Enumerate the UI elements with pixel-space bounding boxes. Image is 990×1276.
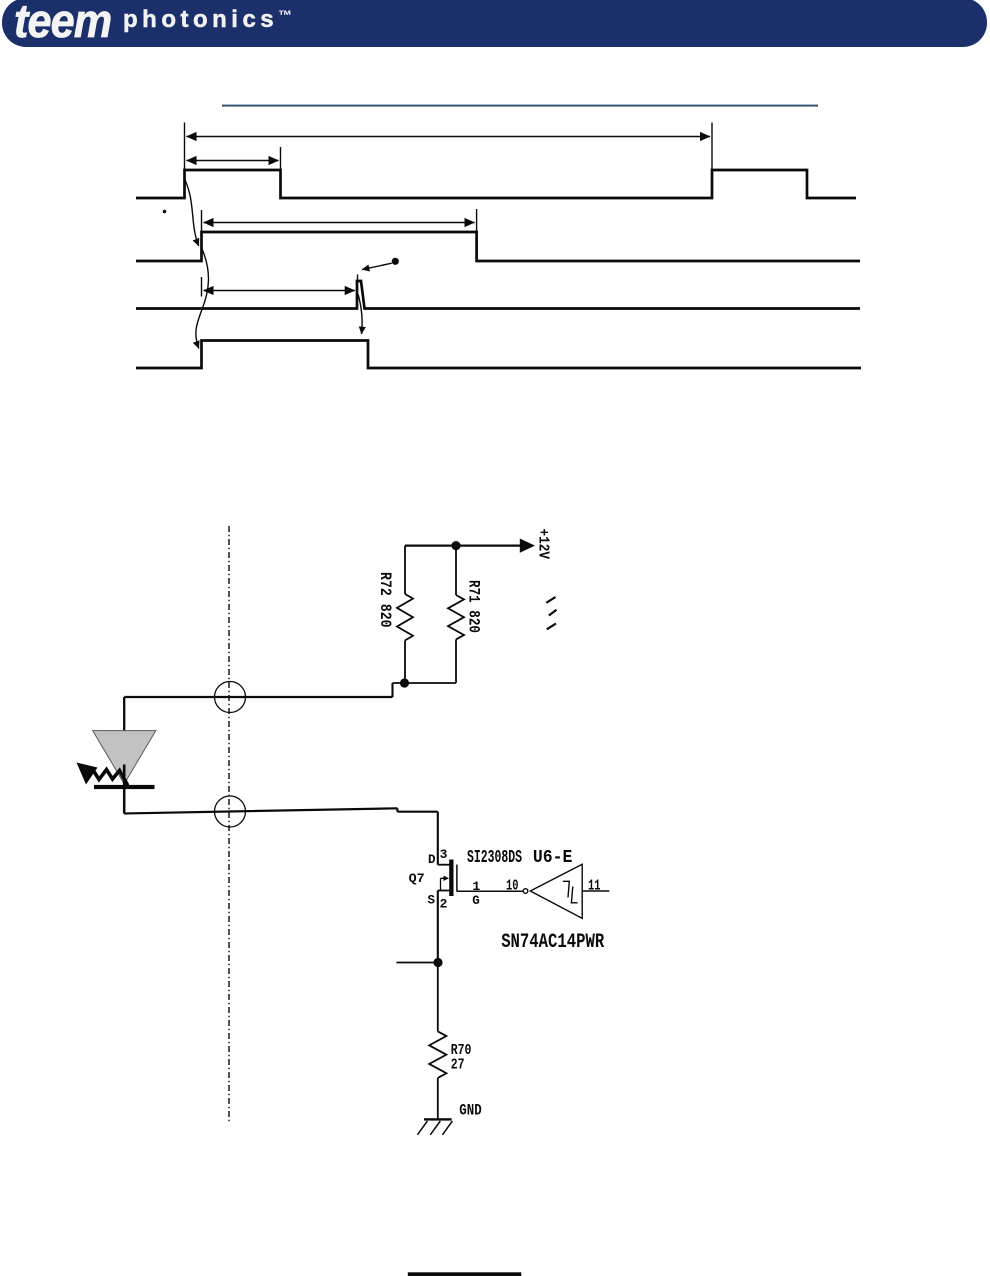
logo text photonics (123, 6, 292, 34)
junction dot R72 bottom (400, 678, 409, 687)
laser diode triangle (93, 731, 156, 784)
laser light arrowhead (77, 763, 98, 785)
Q7 source stub (438, 890, 450, 892)
dimension arrow row2 width (204, 222, 475, 224)
wire laser cathode vertical upper (123, 788, 126, 814)
svg-text:27: 27 (451, 1057, 465, 1074)
wire node to R70 (437, 963, 439, 1032)
dimension arrow period row1 (187, 136, 711, 138)
wire R72 bottom lead (404, 640, 406, 683)
ground symbol hatches (417, 1121, 452, 1135)
svg-text:11: 11 (588, 878, 601, 894)
junction dot source node (433, 958, 442, 967)
waveform row 4 (136, 341, 861, 369)
blue section rule (222, 105, 818, 107)
wire R70 to ground (437, 1078, 439, 1119)
wire node joining R72 R71 bottoms (393, 682, 457, 684)
wire step down to anode line (391, 683, 393, 697)
leader curve row1 edge to row2 edge (185, 180, 199, 246)
wire Q7 gate lead (457, 890, 523, 892)
svg-text:U6-E: U6-E (533, 848, 573, 868)
svg-text:+12V: +12V (535, 529, 551, 560)
wire +12V rail horizontal (405, 544, 522, 546)
svg-text:2: 2 (440, 896, 448, 911)
svg-text:10: 10 (506, 878, 519, 894)
svg-text:R71 820: R71 820 (464, 580, 482, 633)
svg-text:1: 1 (472, 879, 480, 894)
svg-text:S: S (428, 893, 436, 907)
svg-text:3: 3 (440, 847, 448, 862)
leader curve spike to row4 falling edge (358, 294, 362, 334)
fiber marks 3 slashes (546, 597, 556, 629)
Q7 body arrow (441, 878, 446, 890)
dimension arrow row3 delay (204, 290, 355, 292)
wire laser anode horizontal (124, 696, 392, 698)
U6-E hysteresis symbol (563, 881, 578, 903)
wire source node stub left (396, 962, 437, 964)
leader dot (392, 258, 399, 265)
inverter U6-E triangle (530, 864, 582, 918)
junction dot +12V rail R71 (451, 541, 460, 550)
svg-text:R72 820: R72 820 (376, 572, 394, 628)
laser light wavy arrow (93, 770, 128, 788)
optical interface boundary dash-dot line (228, 526, 230, 1124)
waveform row 1 (trigger pulse train) (136, 170, 856, 198)
+12V power arrow (520, 539, 535, 553)
connector circle lower (215, 796, 246, 827)
ground bar (424, 1118, 452, 1120)
wire R71 top lead (455, 546, 457, 595)
svg-text:GND: GND (459, 1101, 481, 1119)
stray speck (163, 210, 167, 214)
wire Q7 drain vertical (437, 812, 439, 865)
Q7 drain stub (438, 864, 450, 866)
Q7 gate bar (456, 865, 458, 892)
extension line row2 falling edge (476, 209, 478, 232)
extension line row1 falling edge (280, 147, 282, 170)
leader curve row2 edge to row4 edge (196, 249, 209, 349)
wire U6-E output pin 11 (582, 890, 609, 892)
extension line row1 period end (711, 123, 713, 171)
transistor Q7 channel bar (449, 860, 453, 897)
svg-text:SN74AC14PWR: SN74AC14PWR (501, 931, 604, 954)
svg-text:Q7: Q7 (409, 872, 425, 886)
wire laser cathode horizontal (124, 808, 438, 813)
wire Q7 source down to node (437, 891, 439, 963)
laser diode cathode bar (94, 785, 155, 789)
extension tick above spike (357, 275, 359, 282)
U6-E input bubble (523, 889, 528, 894)
svg-text:SI2308DS: SI2308DS (467, 848, 522, 868)
svg-text:D: D (428, 853, 436, 867)
extension line row3 (201, 277, 203, 297)
resistor R72 (397, 594, 413, 640)
resistor R70 (429, 1031, 446, 1078)
svg-text:G: G (472, 894, 480, 908)
header navy pill bar (2, 0, 987, 47)
extension line row2 rising edge (201, 210, 203, 232)
wire laser anode vertical (123, 697, 125, 731)
leader line from dot to spike (362, 263, 392, 269)
laser diode cathode lead through triangle (123, 765, 126, 790)
waveform row 3 (with narrow spike) (136, 281, 860, 309)
logo text teem (14, 0, 111, 48)
extension line row1 rising edge (184, 123, 186, 171)
wire R71 bottom lead (455, 639, 457, 683)
wire R72 top lead (404, 546, 406, 594)
connector circle upper (215, 682, 246, 713)
resistor R71 (448, 595, 464, 639)
page footer rule (408, 1272, 522, 1276)
waveform row 2 (136, 232, 860, 261)
dimension arrow pulse width row1 (187, 160, 279, 162)
